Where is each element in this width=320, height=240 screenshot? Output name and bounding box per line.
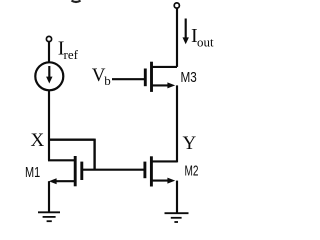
wire: M1 source down to ground — [48, 181, 50, 212]
M2 gate bar — [143, 162, 146, 179]
node X horizontal wire — [48, 138, 95, 140]
M3 gate bar — [144, 69, 147, 87]
M1 gate bar — [80, 162, 83, 180]
svg-text:X: X — [31, 130, 45, 151]
M3 channel bar — [150, 62, 153, 92]
wire: X down to M1 drain — [48, 140, 50, 161]
M2 source line — [151, 180, 168, 182]
M3 drain line — [152, 66, 178, 68]
M1 source line — [56, 180, 76, 182]
M3 source arrow (pointing right) — [167, 82, 175, 88]
M1 source arrow (pointing left) — [49, 178, 57, 184]
wire: Vb to M3 gate — [112, 78, 145, 80]
wire: M2 source down to ground — [176, 181, 178, 213]
cropped caption glyph fragment (top edge) — [72, 1, 81, 3]
wire: M3 drain up to output terminal — [176, 8, 178, 67]
terminal (input port circle) — [46, 36, 51, 41]
M1 channel bar — [74, 156, 77, 186]
svg-text:ref: ref — [64, 47, 79, 62]
wire: current source to node X — [48, 90, 50, 139]
svg-text:out: out — [197, 34, 214, 49]
wire: terminal to current source — [48, 42, 50, 63]
Iout arrow (downward) — [185, 19, 187, 38]
wire: shared gate line M1 to M2 — [82, 169, 145, 171]
svg-text:Y: Y — [183, 133, 197, 154]
M1 drain line — [48, 159, 75, 161]
wire: X down to M1 gate line — [93, 139, 95, 170]
ground (left) — [38, 211, 60, 213]
svg-text:M1: M1 — [25, 165, 40, 181]
current source arrow (downward, inside circle) — [48, 66, 50, 78]
svg-text:M3: M3 — [181, 70, 197, 86]
M2 source arrow (pointing right) — [167, 178, 175, 184]
current source Iref (circle) — [35, 62, 63, 90]
ground (right) — [165, 212, 189, 214]
M3 source line — [152, 84, 169, 86]
M2 channel bar — [150, 156, 153, 186]
wire: right branch Y (M3 source to M2 drain) — [176, 85, 178, 162]
terminal (output port circle) — [174, 3, 179, 8]
svg-text:M2: M2 — [185, 164, 199, 180]
svg-text:b: b — [104, 73, 111, 88]
M2 drain line — [151, 160, 177, 162]
